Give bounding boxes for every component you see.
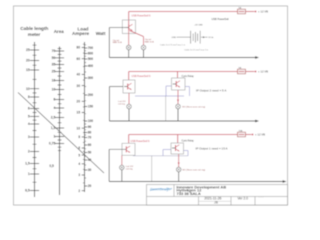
svg-text:MAX 10 A: MAX 10 A <box>145 40 155 43</box>
svg-text:+ 12 VB: + 12 VB <box>255 133 265 137</box>
svg-text:35: 35 <box>52 63 56 67</box>
svg-text:1: 1 <box>28 172 30 176</box>
svg-text:red ring: red ring <box>126 168 133 170</box>
svg-text:20: 20 <box>77 100 81 104</box>
svg-text:400: 400 <box>88 64 94 68</box>
svg-text:6: 6 <box>53 98 55 102</box>
svg-text:Ver 2.0: Ver 2.0 <box>238 197 249 201</box>
svg-text:500: 500 <box>88 57 94 61</box>
svg-text:8: 8 <box>28 95 30 99</box>
svg-text:5V dc: 5V dc <box>208 37 213 39</box>
svg-text:JB: JB <box>214 200 218 204</box>
svg-text:2: 2 <box>78 189 80 193</box>
svg-text:15: 15 <box>77 111 81 115</box>
svg-text:16: 16 <box>52 79 56 83</box>
svg-text:20: 20 <box>88 184 92 188</box>
svg-text:+ 12 VB: + 12 VB <box>258 10 268 14</box>
svg-text:- - - -: - - - - <box>259 197 264 199</box>
svg-text:red ring: red ring <box>118 103 125 105</box>
svg-text:60: 60 <box>88 143 92 147</box>
svg-text:30: 30 <box>88 168 92 172</box>
svg-text:0,5: 0,5 <box>25 189 30 193</box>
svg-text:10: 10 <box>26 87 30 91</box>
svg-text:meter: meter <box>28 32 41 37</box>
svg-text:6: 6 <box>28 107 30 111</box>
svg-text:70: 70 <box>52 49 56 53</box>
svg-text:Watt: Watt <box>96 31 106 36</box>
svg-text:25: 25 <box>52 70 56 74</box>
svg-text:80: 80 <box>77 46 81 50</box>
svg-text:Cyrix Relay: Cyrix Relay <box>182 139 195 142</box>
svg-text:90: 90 <box>88 125 92 129</box>
svg-text:100: 100 <box>88 119 94 123</box>
svg-text:200: 200 <box>88 93 94 97</box>
svg-text:70: 70 <box>88 136 92 140</box>
svg-text:USB PowerDeli: USB PowerDeli <box>212 18 230 21</box>
svg-text:IP Output 2 need = 5 A: IP Output 2 need = 5 A <box>196 89 226 93</box>
svg-text:3: 3 <box>78 173 80 177</box>
svg-text:50: 50 <box>88 151 92 155</box>
svg-text:IP Output 1 need = 15 A: IP Output 1 need = 15 A <box>196 146 228 150</box>
svg-text:0,5: 0,5 <box>49 164 54 168</box>
svg-text:150: 150 <box>88 105 94 109</box>
svg-text:10: 10 <box>52 88 56 92</box>
svg-text:700: 700 <box>88 46 94 50</box>
svg-text:1: 1 <box>53 135 55 139</box>
svg-text:USB PowerDeli N: USB PowerDeli N <box>131 140 150 143</box>
svg-text:15: 15 <box>26 68 30 72</box>
svg-text:5: 5 <box>28 115 30 119</box>
svg-text:15A: 15A <box>239 129 243 132</box>
svg-text:Ampere: Ampere <box>72 31 90 36</box>
svg-text:USB PowerDeli N: USB PowerDeli N <box>132 14 151 17</box>
svg-text:+ 12 VB: + 12 VB <box>258 70 268 74</box>
svg-text:733 38 SALA: 733 38 SALA <box>177 191 201 196</box>
svg-text:600: 600 <box>88 52 94 56</box>
svg-text:1,5: 1,5 <box>25 162 30 166</box>
svg-text:300: 300 <box>88 76 94 80</box>
svg-text:MO (Warm norm red ring): MO (Warm norm red ring) <box>182 170 205 172</box>
svg-text:8: 8 <box>78 135 80 139</box>
svg-text:2021-11-26: 2021-11-26 <box>204 197 221 201</box>
svg-text:5: 5 <box>78 153 80 157</box>
svg-text:25: 25 <box>26 48 30 52</box>
svg-text:2,5: 2,5 <box>51 116 56 120</box>
svg-text:60: 60 <box>77 57 81 61</box>
svg-text:Cable length: Cable length <box>20 26 48 31</box>
svg-text:USB: USB <box>172 37 177 39</box>
svg-text:Cyrix Relay: Cyrix Relay <box>182 75 195 78</box>
svg-text:20: 20 <box>26 59 30 63</box>
svg-text:MAX 10 A: MAX 10 A <box>113 41 123 44</box>
svg-text:USB PowerDeli N: USB PowerDeli N <box>132 75 151 78</box>
svg-text:Cable 2x 0.5 mm² max 2 m: Cable 2x 0.5 mm² max 2 m <box>184 48 208 51</box>
svg-text:+5V USB: +5V USB <box>194 24 203 26</box>
svg-text:0,75: 0,75 <box>49 142 56 146</box>
svg-text:Cable 2x 0.75 mm² max 1 m: Cable 2x 0.75 mm² max 1 m <box>160 44 185 47</box>
svg-text:2: 2 <box>28 150 30 154</box>
svg-text:4: 4 <box>28 122 30 126</box>
svg-text:40: 40 <box>77 73 81 77</box>
svg-text:Area: Area <box>54 29 65 34</box>
svg-text:10: 10 <box>77 126 81 130</box>
svg-text:80: 80 <box>88 131 92 135</box>
svg-text:3: 3 <box>28 135 30 139</box>
svg-text:4: 4 <box>78 162 80 166</box>
svg-text:30: 30 <box>77 84 81 88</box>
svg-text:4: 4 <box>53 106 55 110</box>
svg-text:MO (Warm norm red ring): MO (Warm norm red ring) <box>182 106 205 108</box>
svg-text:50: 50 <box>52 56 56 60</box>
